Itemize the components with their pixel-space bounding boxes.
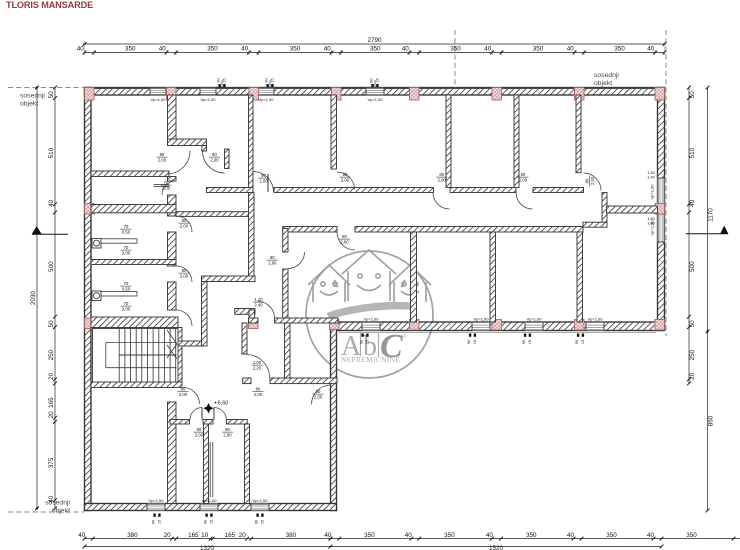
svg-text:15: 15	[473, 340, 477, 344]
svg-text:40: 40	[405, 532, 413, 539]
windows in top wall	[150, 88, 166, 95]
svg-text:90: 90	[360, 340, 364, 344]
svg-text:350: 350	[606, 532, 617, 539]
windows in bottom wall of lower wing	[147, 504, 165, 511]
west wall of right wing room1	[331, 95, 337, 169]
svg-text:70: 70	[124, 224, 129, 229]
center room walls	[283, 229, 288, 253]
svg-text:20: 20	[48, 372, 55, 380]
outer wall left	[85, 88, 92, 511]
svg-text:250: 250	[48, 349, 55, 360]
spine wall x167.5 segments	[168, 95, 177, 141]
svg-text:2,20: 2,20	[253, 365, 262, 370]
svg-text:80: 80	[182, 268, 187, 273]
right wing bottom rooms partitions	[411, 232, 417, 322]
level mark +6,60	[203, 403, 213, 413]
svg-text:90: 90	[255, 520, 259, 524]
svg-text:20: 20	[689, 372, 696, 380]
svg-text:2,00: 2,00	[162, 185, 171, 190]
corridor south wall (right wing)	[283, 227, 337, 233]
svg-text:20: 20	[48, 411, 55, 419]
overall dims 1320 1520	[85, 546, 331, 548]
dimension chain right	[688, 88, 690, 384]
bath counter top	[154, 184, 170, 186]
svg-text:Vp=1,00: Vp=1,00	[363, 317, 379, 322]
svg-text:40: 40	[647, 532, 655, 539]
svg-text:510: 510	[48, 147, 55, 158]
svg-text:90: 90	[225, 427, 230, 432]
svg-text:40: 40	[324, 46, 332, 53]
corridor north wall	[206, 188, 253, 193]
svg-text:70: 70	[164, 180, 169, 185]
outer wall bottom of right wing	[331, 322, 665, 331]
svg-text:90: 90	[575, 340, 579, 344]
svg-text:TLORIS MANSARDE: TLORIS MANSARDE	[6, 0, 93, 10]
svg-text:2,40: 2,40	[254, 302, 263, 307]
svg-text:Vp=1,00: Vp=1,00	[200, 97, 216, 102]
svg-text:2,00: 2,00	[254, 392, 263, 397]
svg-text:objekt: objekt	[594, 80, 612, 87]
svg-text:1170: 1170	[708, 208, 715, 222]
lower wing corridor walls	[243, 378, 251, 384]
svg-text:Vp=1,00: Vp=1,00	[148, 498, 164, 503]
svg-text:350: 350	[364, 532, 375, 539]
partition first floor top band	[249, 95, 254, 193]
svg-text:40: 40	[324, 532, 332, 539]
svg-text:40: 40	[77, 46, 85, 53]
svg-text:6,60: 6,60	[218, 401, 229, 407]
svg-text:Vp=1,00: Vp=1,00	[526, 317, 542, 322]
svg-text:50: 50	[48, 91, 55, 99]
svg-text:2030: 2030	[30, 291, 37, 306]
svg-text:80: 80	[212, 152, 217, 157]
eaves line below right wing bottom wall	[339, 331, 657, 333]
svg-text:2,00: 2,00	[223, 432, 232, 437]
partitions of right wing top rooms	[446, 95, 451, 188]
overall dimension 2790	[85, 43, 665, 45]
svg-text:2,00: 2,00	[341, 177, 350, 182]
svg-text:50: 50	[48, 320, 55, 328]
dimension chain top segments	[85, 52, 665, 54]
vestibule niche walls	[602, 193, 607, 223]
svg-text:90: 90	[152, 520, 156, 524]
svg-text:165: 165	[188, 532, 199, 539]
svg-text:2,00: 2,00	[438, 177, 447, 182]
svg-text:2,00: 2,00	[519, 177, 528, 182]
svg-text:80: 80	[585, 178, 590, 183]
svg-text:15: 15	[528, 340, 532, 344]
svg-text:80: 80	[160, 152, 165, 157]
section marker left	[32, 226, 42, 234]
svg-text:Vp=1,00: Vp=1,00	[201, 498, 217, 503]
outer wall top	[85, 88, 665, 96]
svg-text:Vp=1,00: Vp=1,00	[367, 97, 383, 102]
svg-text:80: 80	[439, 172, 444, 177]
entry jog walls	[168, 139, 207, 146]
svg-text:375: 375	[48, 457, 55, 468]
svg-text:Vp=1,00: Vp=1,00	[587, 317, 603, 322]
svg-text:165: 165	[225, 532, 236, 539]
svg-text:Vp=1,00: Vp=1,00	[650, 184, 655, 200]
svg-text:40: 40	[567, 532, 575, 539]
svg-text:15: 15	[376, 78, 380, 82]
svg-text:90: 90	[522, 340, 526, 344]
svg-text:90: 90	[370, 78, 374, 82]
stairs	[93, 329, 179, 383]
svg-text:2,00: 2,00	[158, 157, 167, 162]
svg-text:350: 350	[370, 46, 381, 53]
small shaft wall	[235, 309, 255, 315]
svg-text:80: 80	[181, 387, 186, 392]
svg-text:1,80: 1,80	[647, 217, 654, 221]
svg-text:1520: 1520	[489, 545, 504, 550]
svg-text:Vp=1,00: Vp=1,00	[258, 97, 274, 102]
svg-text:2,00: 2,00	[210, 157, 219, 162]
svg-text:Vp=1,00: Vp=1,00	[150, 97, 166, 102]
svg-text:15: 15	[366, 340, 370, 344]
door arcs	[167, 151, 190, 174]
outer wall right	[658, 88, 665, 331]
svg-text:0,50: 0,50	[122, 286, 131, 291]
dashed boundary lines sosednji objekt	[8, 87, 84, 89]
svg-text:Vp=1,00: Vp=1,00	[473, 317, 489, 322]
svg-text:1,00: 1,00	[253, 360, 262, 365]
svg-text:40: 40	[48, 495, 55, 503]
rotated door label vestibule	[585, 176, 595, 187]
svg-text:70: 70	[124, 301, 129, 306]
bridge wall to right wall	[607, 206, 658, 213]
svg-text:Vp=1,00: Vp=1,00	[252, 498, 268, 503]
svg-text:90: 90	[261, 173, 266, 178]
svg-text:40: 40	[647, 46, 655, 53]
overall dimensions 1170 / 860	[707, 88, 709, 511]
svg-text:40: 40	[402, 46, 410, 53]
svg-text:0,50: 0,50	[122, 229, 131, 234]
svg-text:15: 15	[581, 340, 585, 344]
svg-text:350: 350	[290, 46, 301, 53]
dimension chain left	[54, 88, 56, 509]
svg-text:350: 350	[614, 46, 625, 53]
svg-text:50: 50	[689, 91, 696, 99]
svg-text:350: 350	[207, 46, 218, 53]
svg-text:350: 350	[444, 532, 455, 539]
corridor south wall (west part)	[176, 212, 249, 217]
svg-text:80: 80	[182, 218, 187, 223]
dimension chain bottom	[85, 538, 740, 540]
svg-text:15: 15	[210, 520, 214, 524]
svg-text:510: 510	[689, 147, 696, 158]
svg-text:1,40: 1,40	[647, 222, 654, 226]
svg-text:15: 15	[223, 78, 227, 82]
windows in right wall	[658, 178, 665, 206]
svg-text:350: 350	[125, 46, 136, 53]
svg-text:350: 350	[450, 46, 461, 53]
svg-text:90: 90	[204, 520, 208, 524]
svg-text:20: 20	[239, 532, 247, 539]
svg-text:1,40: 1,40	[647, 176, 654, 180]
svg-text:15: 15	[261, 520, 265, 524]
svg-text:50: 50	[689, 320, 696, 328]
svg-text:40: 40	[689, 199, 696, 207]
svg-text:2,00: 2,00	[340, 239, 349, 244]
svg-text:sosednji: sosednji	[20, 93, 45, 100]
columns (red hatch)	[85, 88, 95, 101]
svg-text:2,00: 2,00	[590, 176, 595, 185]
overall dimension 2030	[36, 88, 38, 509]
svg-text:2,00: 2,00	[268, 260, 277, 265]
svg-text:40: 40	[159, 46, 167, 53]
svg-text:80: 80	[342, 234, 347, 239]
svg-text:1,80: 1,80	[647, 171, 654, 175]
outer wall bottom of lower-left wing	[85, 504, 337, 511]
svg-text:1,20: 1,20	[254, 297, 263, 302]
svg-text:70: 70	[124, 245, 129, 250]
svg-text:10: 10	[201, 532, 209, 539]
wall above hall with door	[249, 318, 259, 323]
svg-text:90: 90	[270, 255, 275, 260]
svg-text:80: 80	[521, 172, 526, 177]
svg-text:80: 80	[316, 389, 321, 394]
lower wing top band partitions	[242, 323, 247, 354]
svg-text:15: 15	[158, 520, 162, 524]
svg-text:1320: 1320	[200, 545, 215, 550]
svg-text:20: 20	[164, 532, 172, 539]
svg-text:2,00: 2,00	[314, 394, 323, 399]
svg-text:2,00: 2,00	[122, 306, 131, 311]
svg-text:90: 90	[265, 78, 269, 82]
windows in bottom wall of right wing	[362, 322, 380, 331]
svg-text:500: 500	[689, 261, 696, 272]
svg-text:250: 250	[689, 349, 696, 360]
svg-text:380: 380	[127, 532, 138, 539]
svg-text:40: 40	[78, 532, 86, 539]
svg-text:2790: 2790	[367, 37, 382, 44]
svg-text:380: 380	[286, 532, 297, 539]
svg-text:2,00: 2,00	[259, 178, 268, 183]
svg-text:80: 80	[343, 172, 348, 177]
svg-text:350: 350	[526, 532, 537, 539]
outer wall right side of lower-left wing	[331, 322, 337, 511]
lower rooms walls	[170, 420, 190, 425]
svg-text:90: 90	[467, 340, 471, 344]
svg-text:15: 15	[271, 78, 275, 82]
svg-text:90: 90	[217, 78, 221, 82]
svg-text:80: 80	[256, 387, 261, 392]
svg-text:40: 40	[48, 199, 55, 207]
svg-text:objekt: objekt	[20, 101, 38, 108]
svg-text:®: ®	[403, 333, 408, 340]
svg-text:2,00: 2,00	[180, 223, 189, 228]
svg-text:40: 40	[567, 46, 575, 53]
bathroom counters and fixtures	[101, 239, 137, 243]
section marker right	[720, 226, 728, 235]
svg-text:350: 350	[686, 532, 697, 539]
svg-text:2,00: 2,00	[195, 432, 204, 437]
svg-text:NEPREMIČNINE: NEPREMIČNINE	[341, 354, 400, 364]
bathroom walls left strip	[91, 205, 176, 213]
svg-text:860: 860	[708, 415, 715, 426]
svg-text:2,00: 2,00	[122, 250, 131, 255]
svg-text:40: 40	[484, 46, 492, 53]
svg-text:40: 40	[486, 532, 494, 539]
svg-text:500: 500	[48, 261, 55, 272]
watermark logo ABC Nepremicnine	[306, 250, 433, 378]
svg-text:40: 40	[241, 46, 249, 53]
svg-text:2,00: 2,00	[180, 273, 189, 278]
svg-text:90: 90	[197, 427, 202, 432]
svg-text:350: 350	[533, 46, 544, 53]
svg-text:2,00: 2,00	[179, 392, 188, 397]
svg-text:165: 165	[48, 397, 55, 408]
svg-text:70: 70	[124, 281, 129, 286]
svg-text:sosednji: sosednji	[594, 72, 619, 79]
window tags	[218, 84, 220, 87]
TL room bottom wall	[91, 171, 169, 177]
